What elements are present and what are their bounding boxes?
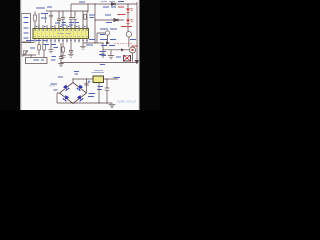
svg-text:spblk.com.pl: spblk.com.pl [117, 100, 136, 104]
svg-text:a2.b: a2.b [49, 84, 55, 88]
